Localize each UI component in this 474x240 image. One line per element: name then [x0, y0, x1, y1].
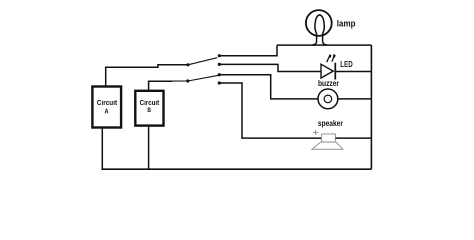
svg-text:Circuit: Circuit — [97, 100, 118, 107]
svg-text:A: A — [105, 109, 109, 116]
circuit box A — [92, 87, 121, 128]
wire: buzzer to right bus — [338, 98, 372, 100]
node: throw contact 2 — [218, 63, 221, 66]
wire: throw 2 to LED anode — [219, 64, 321, 71]
switch S2 arm — [188, 75, 218, 81]
lamp L1 — [306, 10, 332, 45]
svg-text:LED: LED — [340, 60, 353, 69]
wire: right bus — [370, 45, 372, 169]
svg-text:lamp: lamp — [337, 19, 356, 29]
svg-text:buzzer: buzzer — [318, 78, 340, 88]
circuit box B — [135, 91, 163, 126]
wire: circuit B top lead to switch S2 pole — [149, 81, 172, 91]
LED D1 — [321, 54, 336, 80]
wire: speaker to right bus — [336, 137, 372, 139]
wire: bottom bus — [101, 168, 371, 170]
wire: throw 3 to buzzer — [219, 75, 318, 99]
wire: LED cathode to right bus — [335, 71, 371, 73]
node: throw contact 4 — [218, 81, 221, 84]
switch S1 pivot junction dot — [186, 63, 189, 66]
node: throw contact 1 — [218, 54, 221, 57]
switch S2 pivot junction dot — [186, 79, 189, 82]
buzzer BZ1 — [318, 89, 338, 109]
svg-text:B: B — [147, 107, 151, 114]
speaker LS1 — [312, 130, 343, 149]
node: throw contact 3 — [218, 73, 221, 76]
wire: circuit A bottom lead — [101, 128, 103, 170]
svg-text:speaker: speaker — [318, 118, 343, 128]
wire: circuit A top lead to switch S1 pole — [106, 65, 188, 87]
wire: circuit B bottom lead — [148, 126, 150, 170]
wire: throw 4 to speaker — [219, 83, 321, 138]
wire: lamp branch horizontal — [277, 44, 371, 46]
switch S1 arm — [188, 58, 217, 65]
wire: switch S2 pole tail — [172, 80, 188, 82]
wire: throw 1 to lamp branch — [219, 45, 277, 56]
